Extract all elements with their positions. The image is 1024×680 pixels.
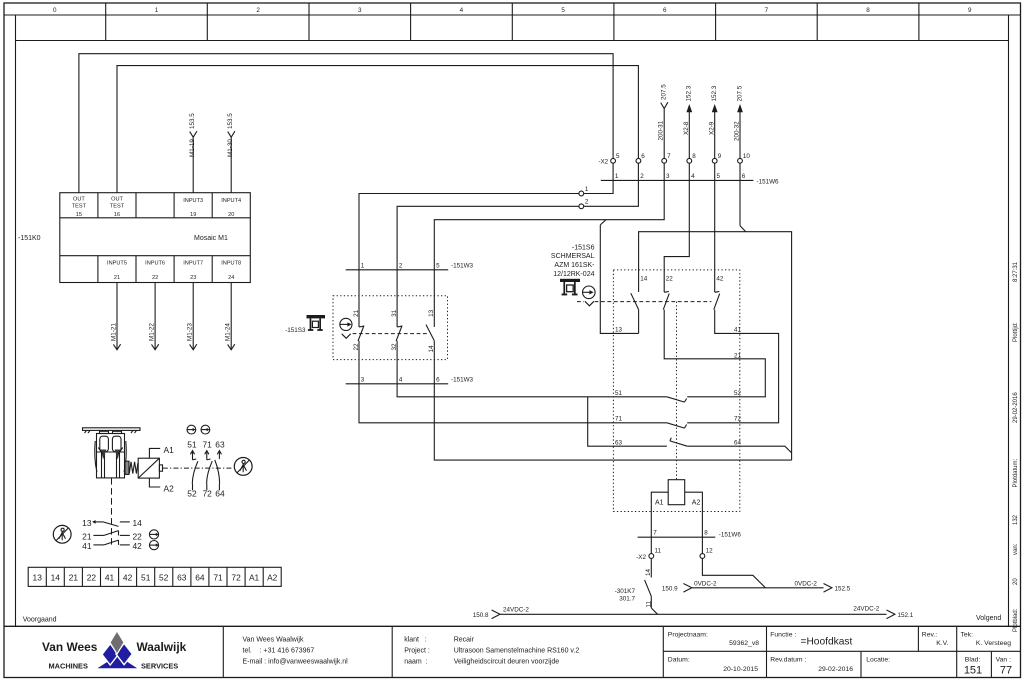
svg-text:-151W6: -151W6 bbox=[719, 531, 742, 538]
svg-text:52: 52 bbox=[734, 390, 742, 397]
svg-text:-X2: -X2 bbox=[636, 554, 646, 561]
svg-text:41: 41 bbox=[82, 541, 92, 551]
wire X2:10 up to page 207.5 bbox=[739, 111, 741, 158]
svg-text:71: 71 bbox=[203, 440, 213, 450]
-301K7 NO contact bbox=[645, 559, 658, 615]
AZM spring bbox=[125, 461, 138, 474]
0VDC-2 wire bbox=[692, 587, 824, 589]
cable -151W6 lower marker bbox=[638, 536, 716, 538]
svg-text:Plottijd:: Plottijd: bbox=[1013, 322, 1019, 342]
wire X2:9 up to page 152.3 bbox=[714, 111, 716, 158]
svg-text:63: 63 bbox=[215, 440, 225, 450]
svg-text:52: 52 bbox=[187, 489, 197, 499]
svg-text:21: 21 bbox=[114, 275, 120, 281]
svg-text:207.5: 207.5 bbox=[736, 85, 743, 101]
svg-text:42: 42 bbox=[133, 541, 143, 551]
no-access person symbol right bbox=[234, 458, 252, 476]
wire X2:9 to -151S6 42 bbox=[714, 163, 716, 292]
svg-text:AZM 161SK-: AZM 161SK- bbox=[554, 262, 595, 269]
svg-text:M1-24: M1-24 bbox=[225, 323, 232, 341]
-151S6 NO contact 63/64 bbox=[670, 438, 687, 447]
-151S6 device label bbox=[551, 244, 595, 278]
svg-text:Van :: Van : bbox=[996, 656, 1011, 663]
svg-text:Waalwijk: Waalwijk bbox=[137, 640, 187, 654]
svg-text:A2: A2 bbox=[692, 500, 701, 507]
wire M1-21 bbox=[113, 283, 120, 350]
svg-text:16: 16 bbox=[114, 212, 120, 218]
svg-text:3: 3 bbox=[358, 7, 362, 14]
logo gray diamond bbox=[110, 631, 124, 654]
svg-text:-151K0: -151K0 bbox=[18, 235, 41, 242]
svg-text:-X2: -X2 bbox=[598, 158, 608, 165]
svg-text:301.7: 301.7 bbox=[619, 595, 635, 602]
AZM lock latching claws bbox=[101, 450, 107, 460]
svg-text:29-02-2016: 29-02-2016 bbox=[1013, 392, 1019, 423]
svg-text:150.8: 150.8 bbox=[473, 612, 489, 619]
wire X2:5 down to X2:1 bbox=[584, 163, 613, 193]
junction drop to 63 row bbox=[588, 397, 667, 446]
svg-text:7: 7 bbox=[653, 530, 657, 537]
terminal X2:10 bbox=[738, 158, 743, 163]
-151S6 actuator icon bbox=[560, 279, 580, 296]
-151S3 interlock circle-arrow symbol bbox=[340, 318, 352, 330]
svg-text:INPUT8: INPUT8 bbox=[221, 261, 241, 267]
svg-text:13: 13 bbox=[82, 518, 92, 528]
terminal X2:2 bbox=[579, 204, 584, 209]
svg-text:51: 51 bbox=[615, 390, 623, 397]
svg-text:42: 42 bbox=[123, 572, 133, 582]
svg-text:2: 2 bbox=[585, 199, 589, 206]
-151S6 manual actuation chevron bbox=[585, 301, 594, 306]
svg-text:INPUT7: INPUT7 bbox=[183, 261, 203, 267]
svg-text:59362_v8: 59362_v8 bbox=[729, 640, 759, 647]
svg-text:-151S3: -151S3 bbox=[285, 327, 306, 334]
svg-text:E-mail : info@vanweeswaalwijk.: E-mail : info@vanweeswaalwijk.nl bbox=[243, 659, 349, 666]
solenoid terminal A1 bbox=[149, 448, 160, 458]
svg-text:TEST: TEST bbox=[110, 204, 125, 210]
wire X2:2 to -151S3 contact 31 bbox=[397, 206, 579, 327]
svg-text:20: 20 bbox=[1013, 578, 1019, 585]
wire M1-19 to page 153.5 bbox=[190, 131, 197, 193]
svg-text:31: 31 bbox=[391, 309, 398, 317]
svg-text:152.3: 152.3 bbox=[711, 85, 718, 101]
svg-text:152.1: 152.1 bbox=[898, 612, 914, 619]
svg-text:15: 15 bbox=[76, 212, 82, 218]
svg-text:Van Wees: Van Wees bbox=[42, 640, 98, 654]
title block: project fields bbox=[668, 631, 1011, 673]
svg-text:14: 14 bbox=[645, 568, 652, 576]
svg-text:42: 42 bbox=[716, 276, 724, 283]
-151S3 actuator icon bbox=[307, 315, 326, 331]
svg-text:OUT: OUT bbox=[111, 197, 123, 203]
no-access person symbol left bbox=[53, 525, 71, 543]
svg-text:64: 64 bbox=[215, 489, 225, 499]
-151S3 dashed enclosure box bbox=[333, 296, 448, 360]
svg-text:A1: A1 bbox=[655, 500, 664, 507]
svg-text:4: 4 bbox=[399, 376, 403, 383]
svg-text:63: 63 bbox=[615, 439, 623, 446]
-151S6 NO contact 13/14 bbox=[631, 293, 639, 309]
svg-text:24VDC-2: 24VDC-2 bbox=[853, 606, 879, 613]
wire X2:12 to 0VDC-2 bbox=[702, 559, 765, 588]
-151S3 NC contact 31/32 bbox=[396, 326, 402, 341]
svg-text:0VDC-2: 0VDC-2 bbox=[795, 581, 818, 588]
svg-text:14: 14 bbox=[640, 276, 648, 283]
svg-text:6: 6 bbox=[436, 376, 440, 383]
svg-text:151: 151 bbox=[964, 665, 982, 677]
svg-text:63: 63 bbox=[177, 572, 187, 582]
svg-text:1: 1 bbox=[155, 7, 159, 14]
-151S6 dotted enclosure box bbox=[613, 270, 739, 512]
svg-text:Volgend: Volgend bbox=[976, 615, 1001, 622]
svg-text:M1-19: M1-19 bbox=[189, 139, 196, 157]
svg-text:3: 3 bbox=[361, 376, 365, 383]
wire X2:8 to -151S6 22 bbox=[664, 163, 689, 292]
solenoid terminal A2 bbox=[149, 478, 160, 487]
release circle row3 bbox=[149, 541, 158, 550]
-151S3 mechanical linkage dashed line bbox=[353, 333, 429, 335]
svg-text:8: 8 bbox=[866, 7, 870, 14]
svg-text:153.5: 153.5 bbox=[189, 113, 196, 129]
wire 231.7 row to -151S6 14 and right leg bbox=[639, 232, 792, 460]
svg-text:-301K7: -301K7 bbox=[615, 588, 636, 595]
svg-text:77: 77 bbox=[1000, 665, 1012, 677]
svg-text:207.5: 207.5 bbox=[661, 84, 668, 100]
wire X2:1 to -151S3 contact 21 bbox=[359, 194, 579, 328]
svg-text:21: 21 bbox=[69, 572, 79, 582]
wire X2:7 up to page 207.5 bbox=[661, 102, 668, 158]
logo blue right diamond bbox=[116, 643, 132, 664]
svg-text:A1: A1 bbox=[164, 445, 175, 455]
svg-text:OUT: OUT bbox=[73, 197, 85, 203]
svg-text:8: 8 bbox=[692, 153, 696, 160]
wire -151S6 22 down to 52 bbox=[664, 310, 765, 397]
svg-text:MACHINES: MACHINES bbox=[49, 662, 88, 671]
svg-text:152.5: 152.5 bbox=[835, 585, 851, 592]
svg-text:K. Versteeg: K. Versteeg bbox=[976, 640, 1011, 647]
svg-text:INPUT5: INPUT5 bbox=[107, 261, 127, 267]
svg-text:Ultrasoon Samenstelmachine RS1: Ultrasoon Samenstelmachine RS160 v.2 bbox=[454, 648, 580, 655]
svg-text:24: 24 bbox=[228, 275, 234, 281]
-151S6 NC contact 21/22 bbox=[663, 291, 669, 309]
logo blue triangle bbox=[95, 655, 139, 669]
svg-text:12: 12 bbox=[706, 547, 714, 554]
svg-text:4: 4 bbox=[691, 173, 695, 180]
svg-text:Blad:: Blad: bbox=[965, 656, 981, 663]
terminal X2:6 bbox=[636, 158, 641, 163]
-151S3 manual actuation chevron bbox=[342, 334, 351, 339]
svg-text:-151S6: -151S6 bbox=[572, 244, 595, 251]
svg-text:A2: A2 bbox=[267, 572, 278, 582]
svg-text:71: 71 bbox=[213, 572, 223, 582]
-151S6 NC contact 41/42 bbox=[714, 291, 720, 309]
svg-text:4: 4 bbox=[460, 7, 464, 14]
svg-text:6: 6 bbox=[663, 7, 667, 14]
svg-text:51: 51 bbox=[141, 572, 151, 582]
svg-text:=Hoofdkast: =Hoofdkast bbox=[801, 637, 853, 648]
svg-text:0VDC-2: 0VDC-2 bbox=[694, 581, 717, 588]
svg-text:22: 22 bbox=[152, 275, 158, 281]
svg-text:152.3: 152.3 bbox=[686, 85, 693, 101]
svg-text:2: 2 bbox=[256, 7, 260, 14]
right margin plot info (rotated) bbox=[1013, 261, 1019, 632]
svg-text:Veiligheidscircuit deuren voor: Veiligheidscircuit deuren voorzijde bbox=[454, 659, 560, 666]
wire OUT TEST 15 to X2:5 bbox=[79, 54, 613, 193]
svg-text:-151W6: -151W6 bbox=[757, 178, 780, 185]
wire coil A1 to X2:11 bbox=[651, 492, 668, 553]
svg-text:A2: A2 bbox=[164, 483, 175, 493]
-151S6 interlock circle-arrow symbol bbox=[583, 286, 596, 299]
svg-text:20-10-2015: 20-10-2015 bbox=[723, 666, 758, 673]
svg-text:1: 1 bbox=[615, 173, 619, 180]
svg-text:11: 11 bbox=[646, 600, 653, 607]
svg-text:132: 132 bbox=[1013, 514, 1019, 525]
wire -151S3 32 to -151S6 51 bbox=[397, 341, 667, 397]
wire X2:10 down with junction bbox=[739, 163, 741, 226]
svg-text:64: 64 bbox=[734, 439, 742, 446]
AZM solenoid box bbox=[138, 458, 162, 478]
svg-text:6: 6 bbox=[641, 153, 645, 160]
wire branch junction to -151S6 13 bbox=[600, 220, 606, 225]
svg-text:41: 41 bbox=[734, 327, 742, 334]
-151S6 NC contact 71/72 bbox=[667, 423, 687, 428]
svg-text:Mosaic M1: Mosaic M1 bbox=[194, 235, 228, 242]
svg-text:M1-22: M1-22 bbox=[149, 323, 156, 341]
svg-text:X2-9: X2-9 bbox=[708, 121, 715, 135]
terminal X2:8 bbox=[687, 158, 692, 163]
svg-text:7: 7 bbox=[765, 7, 769, 14]
svg-text:72: 72 bbox=[203, 489, 213, 499]
svg-text:22: 22 bbox=[87, 572, 97, 582]
svg-text:Projectnaam:: Projectnaam: bbox=[668, 631, 708, 638]
svg-text:Rev.datum :: Rev.datum : bbox=[770, 657, 806, 664]
svg-text:24VDC-2: 24VDC-2 bbox=[503, 607, 529, 614]
svg-text:INPUT3: INPUT3 bbox=[183, 198, 203, 204]
svg-text:0: 0 bbox=[53, 7, 57, 14]
svg-text:1: 1 bbox=[585, 186, 589, 193]
wire M1-22 bbox=[152, 283, 159, 350]
svg-text:9: 9 bbox=[718, 153, 722, 160]
svg-text:13: 13 bbox=[33, 572, 43, 582]
svg-text:20: 20 bbox=[228, 212, 234, 218]
Van Wees Waalwijk logo bbox=[42, 631, 187, 671]
svg-text:3: 3 bbox=[666, 173, 670, 180]
svg-text:200-31: 200-31 bbox=[658, 120, 665, 140]
svg-text:Rev.:: Rev.: bbox=[922, 631, 937, 638]
-151S3 NO contact 13/14 bbox=[426, 325, 434, 341]
-151S3 NC contact 21/22 bbox=[358, 326, 364, 341]
svg-text:Plotblad:: Plotblad: bbox=[1013, 608, 1019, 632]
terminal X2:5 bbox=[611, 158, 616, 163]
title block frame bbox=[4, 625, 1021, 627]
cable -151W3 top marker bbox=[346, 269, 449, 271]
cable -151W6 marker bbox=[601, 179, 754, 181]
svg-text:van:: van: bbox=[1013, 543, 1019, 555]
svg-text:Van Wees Waalwijk: Van Wees Waalwijk bbox=[243, 637, 304, 644]
terminal X2:7 bbox=[662, 158, 667, 163]
-151S6 linkage dotted vertical to coil bbox=[676, 302, 678, 480]
svg-text:13: 13 bbox=[615, 327, 623, 334]
header column numbers bbox=[53, 7, 972, 14]
terminal strip bbox=[28, 567, 281, 586]
svg-text:8:27:31: 8:27:31 bbox=[1013, 261, 1019, 282]
solenoid linkage dash-dot line bbox=[163, 467, 232, 469]
svg-text:6: 6 bbox=[742, 173, 746, 180]
svg-text:7: 7 bbox=[667, 153, 671, 160]
title block: company info bbox=[243, 637, 580, 666]
svg-text:71: 71 bbox=[615, 415, 623, 422]
svg-text:TEST: TEST bbox=[72, 204, 87, 210]
terminal X2:1 bbox=[579, 191, 584, 196]
wire M1-24 bbox=[228, 283, 235, 350]
Mosaic M1 safety PLC block bbox=[60, 193, 251, 283]
svg-text:M1-30: M1-30 bbox=[227, 139, 234, 157]
svg-text:klant :: klant : bbox=[404, 637, 427, 644]
wire M1-23 bbox=[190, 283, 197, 350]
svg-text:10: 10 bbox=[743, 153, 751, 160]
AZM lock mounting bracket bbox=[83, 428, 141, 431]
svg-text:X2-8: X2-8 bbox=[683, 121, 690, 135]
svg-text:tel. : +31 416 673967: tel. : +31 416 673967 bbox=[243, 648, 315, 655]
svg-text:5: 5 bbox=[561, 7, 565, 14]
svg-text:23: 23 bbox=[190, 275, 196, 281]
svg-text:2: 2 bbox=[640, 173, 644, 180]
svg-text:72: 72 bbox=[734, 415, 742, 422]
svg-text:29-02-2016: 29-02-2016 bbox=[818, 666, 853, 673]
lock centerline dashed bbox=[111, 478, 113, 545]
svg-text:41: 41 bbox=[105, 572, 115, 582]
svg-text:Functie :: Functie : bbox=[770, 631, 796, 638]
wire coil A2 to X2:12 bbox=[685, 492, 703, 553]
svg-text:A1: A1 bbox=[249, 572, 260, 582]
wire -151S3 13 to X2:7 bbox=[434, 163, 664, 327]
svg-text:INPUT6: INPUT6 bbox=[145, 261, 165, 267]
svg-text:M1-21: M1-21 bbox=[111, 323, 118, 341]
wire 64 to rail junction bbox=[687, 446, 791, 453]
wire OUT TEST 16 to X2:6 bbox=[117, 66, 638, 193]
-151S6 NC contact 51/52 bbox=[667, 397, 687, 402]
svg-text:2: 2 bbox=[399, 262, 403, 269]
svg-text:14: 14 bbox=[133, 518, 143, 528]
svg-text:-151W3: -151W3 bbox=[451, 262, 474, 269]
svg-text:9: 9 bbox=[968, 7, 972, 14]
actuation circles above 51/71 bbox=[187, 425, 210, 434]
svg-text:14: 14 bbox=[51, 572, 61, 582]
svg-text:19: 19 bbox=[190, 212, 196, 218]
wire -151S6 42 down to 72 bbox=[687, 310, 778, 423]
svg-text:150.9: 150.9 bbox=[662, 585, 678, 592]
-151S6 solenoid coil bbox=[668, 480, 685, 505]
terminal X2:9 bbox=[712, 158, 717, 163]
svg-text:21: 21 bbox=[353, 309, 360, 317]
wire X2:6 down to X2:2 bbox=[584, 163, 639, 206]
svg-text:52: 52 bbox=[159, 572, 169, 582]
svg-text:Datum:: Datum: bbox=[668, 657, 690, 664]
svg-text:K.V.: K.V. bbox=[936, 640, 948, 647]
wire -151S3 22 to -151S6 71 bbox=[359, 341, 667, 423]
svg-text:1: 1 bbox=[361, 262, 365, 269]
svg-text:11: 11 bbox=[655, 547, 662, 554]
svg-text:SERVICES: SERVICES bbox=[141, 662, 178, 671]
svg-text:SCHMERSAL: SCHMERSAL bbox=[551, 253, 595, 260]
svg-text:22: 22 bbox=[666, 276, 674, 283]
svg-text:8: 8 bbox=[704, 530, 708, 537]
svg-text:INPUT4: INPUT4 bbox=[221, 198, 241, 204]
-151S6 linkage dashed line bbox=[577, 301, 584, 303]
terminal X2:12 bbox=[700, 554, 705, 559]
header row 1 grid bbox=[4, 3, 1021, 41]
24VDC-2 wire bbox=[500, 613, 887, 615]
svg-text:Tek:: Tek: bbox=[961, 631, 974, 638]
svg-text:5: 5 bbox=[717, 173, 721, 180]
AZM lock head body bbox=[95, 431, 127, 478]
svg-text:naam :: naam : bbox=[404, 659, 427, 666]
svg-text:51: 51 bbox=[187, 440, 197, 450]
svg-text:Voorgaand: Voorgaand bbox=[23, 617, 57, 624]
svg-text:5: 5 bbox=[436, 262, 440, 269]
svg-text:Recair: Recair bbox=[454, 637, 475, 644]
svg-text:21: 21 bbox=[82, 531, 92, 541]
svg-text:64: 64 bbox=[195, 572, 205, 582]
wire M1-30 to page 153.5 bbox=[228, 131, 235, 193]
cable -151W3 bottom marker bbox=[346, 383, 449, 385]
svg-text:Plotdatum:: Plotdatum: bbox=[1013, 458, 1019, 487]
svg-text:22: 22 bbox=[133, 531, 143, 541]
svg-text:72: 72 bbox=[231, 572, 241, 582]
svg-text:M1-23: M1-23 bbox=[187, 323, 194, 341]
release circle row2 bbox=[149, 530, 158, 539]
svg-text:153.5: 153.5 bbox=[227, 113, 234, 129]
svg-text:5: 5 bbox=[616, 153, 620, 160]
logo blue left diamond bbox=[102, 644, 118, 665]
svg-text:12/12RK-024: 12/12RK-024 bbox=[553, 271, 594, 278]
wire X2:8 up to page 152.3 bbox=[688, 111, 690, 158]
svg-text:13: 13 bbox=[428, 309, 435, 317]
wire -151S3 14 to bottom rail bbox=[434, 341, 791, 460]
svg-text:Locatie:: Locatie: bbox=[866, 657, 890, 664]
svg-text:Project :: Project : bbox=[404, 648, 430, 655]
svg-text:-151W3: -151W3 bbox=[451, 376, 474, 383]
svg-text:200-32: 200-32 bbox=[734, 121, 741, 141]
